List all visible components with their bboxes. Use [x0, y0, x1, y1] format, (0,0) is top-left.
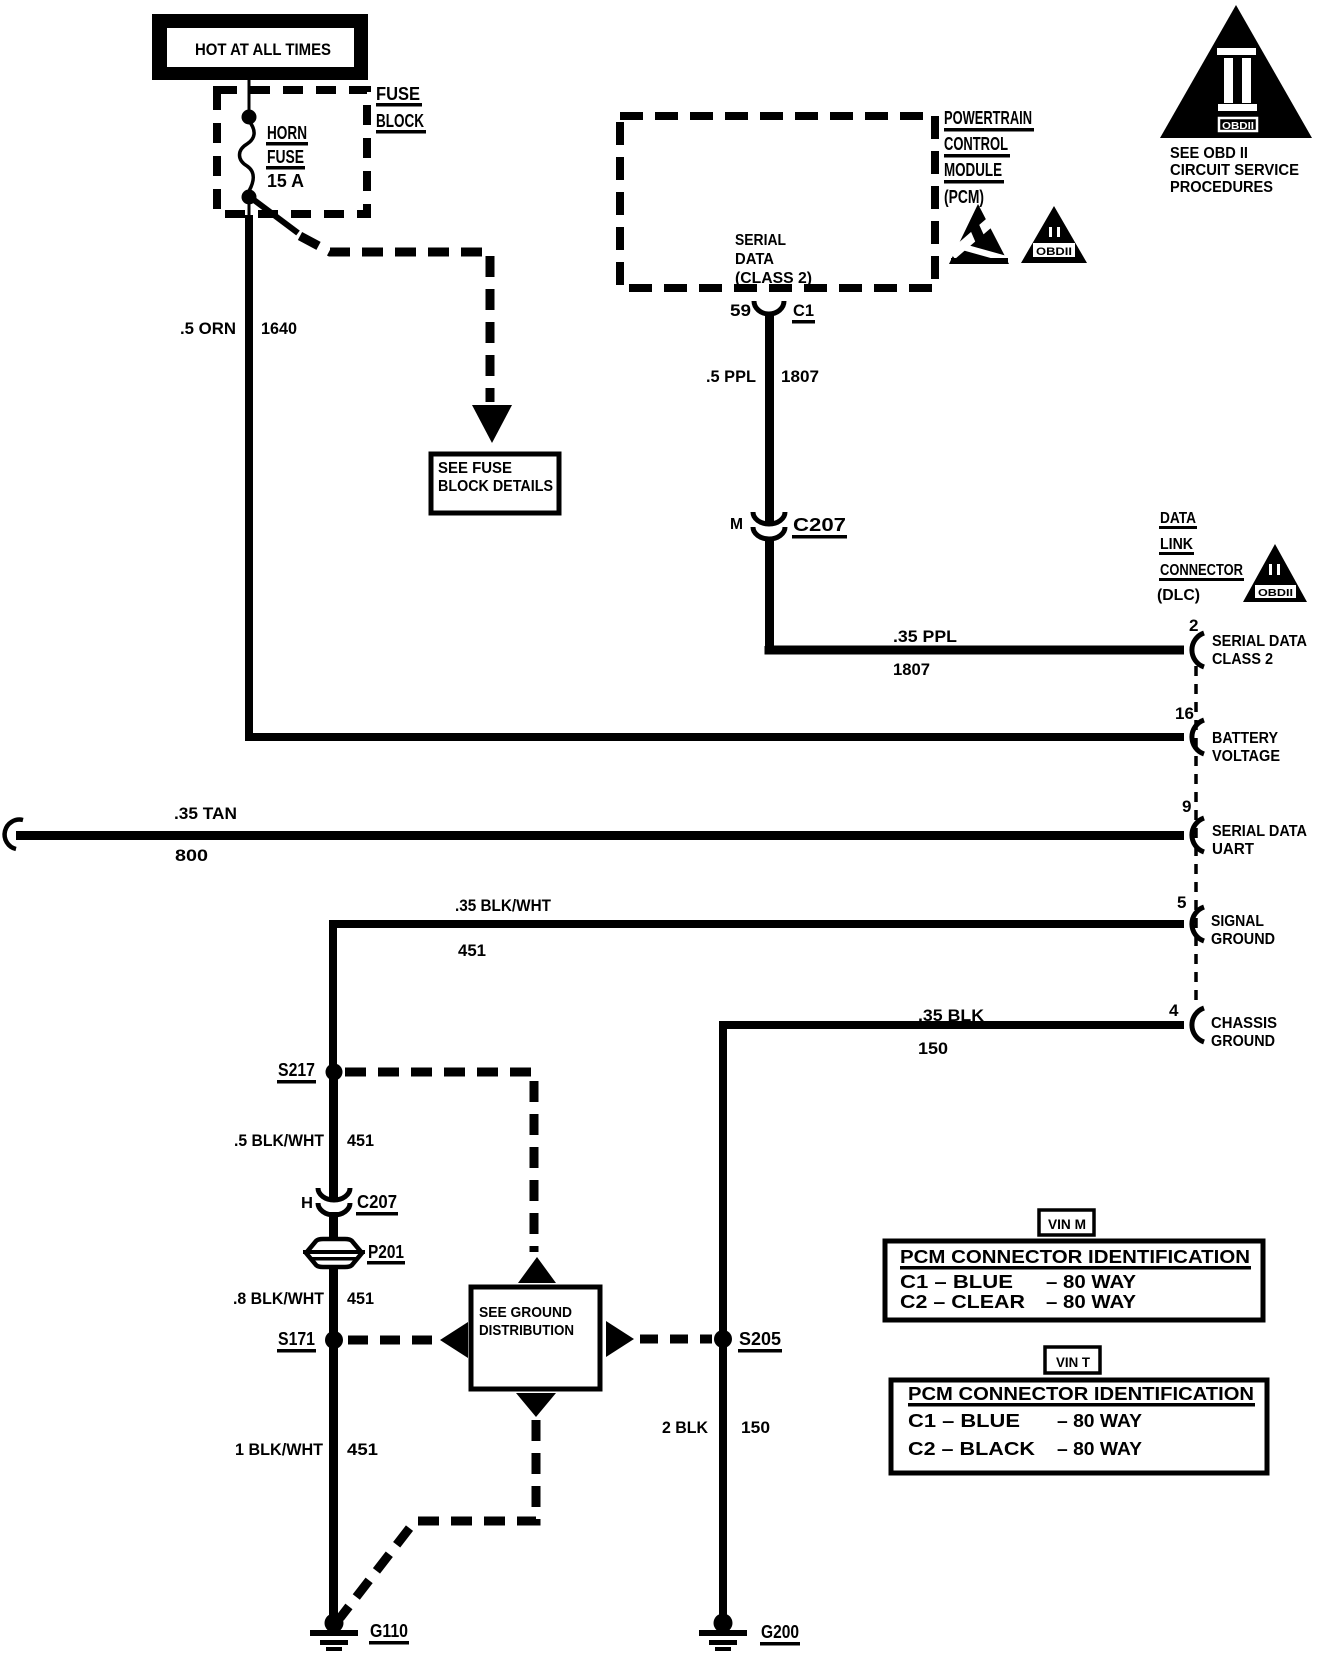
- svg-text:SERIAL DATA: SERIAL DATA: [1212, 633, 1307, 650]
- svg-text:MODULE: MODULE: [944, 160, 1002, 180]
- ESD warning triangle: [949, 204, 1009, 264]
- ground G110: [310, 1614, 409, 1652]
- label 1 BLK/WHT 451: [235, 1440, 378, 1459]
- connector DLC pin 4: [1169, 1001, 1277, 1050]
- svg-text:BLOCK DETAILS: BLOCK DETAILS: [438, 478, 553, 495]
- svg-text:OBDII: OBDII: [1258, 588, 1293, 599]
- wire dashed ground distribution to S205: [606, 1321, 712, 1357]
- svg-text:CONNECTOR: CONNECTOR: [1160, 562, 1243, 579]
- svg-text:5: 5: [1177, 893, 1186, 912]
- wire S171 to G110 vertical: [329, 1340, 338, 1622]
- node PCM connector identification (VIN M): [885, 1241, 1263, 1320]
- svg-text:FUSE: FUSE: [267, 147, 304, 167]
- svg-text:SEE OBD II: SEE OBD II: [1170, 145, 1248, 162]
- wire .5 ORN 1640 vertical: [245, 215, 253, 741]
- svg-text:.35 TAN: .35 TAN: [174, 804, 237, 823]
- svg-text:SEE GROUND: SEE GROUND: [479, 1304, 572, 1321]
- svg-text:CLASS 2: CLASS 2: [1212, 651, 1273, 668]
- connector DLC pin 16: [1175, 704, 1280, 765]
- svg-text:GROUND: GROUND: [1211, 1033, 1275, 1050]
- node FUSE BLOCK label: [376, 84, 426, 134]
- svg-text:M: M: [730, 516, 743, 533]
- svg-text:DATA: DATA: [735, 251, 774, 268]
- svg-text:HOT AT ALL TIMES: HOT AT ALL TIMES: [195, 40, 331, 59]
- PCM box (powertrain control module): [620, 116, 935, 288]
- svg-text:DATA: DATA: [1160, 510, 1196, 527]
- svg-text:.5 ORN: .5 ORN: [180, 319, 236, 338]
- svg-text:2: 2: [1189, 616, 1198, 635]
- svg-text:1640: 1640: [261, 319, 297, 338]
- splice S205: [714, 1329, 782, 1353]
- label .5 PPL 1807: [706, 367, 819, 386]
- label SERIAL DATA (CLASS 2): [735, 232, 812, 287]
- svg-text:59: 59: [730, 301, 751, 320]
- svg-text:POWERTRAIN: POWERTRAIN: [944, 108, 1032, 128]
- svg-text:SERIAL: SERIAL: [735, 232, 786, 249]
- connector C1 pin 59 at PCM: [730, 301, 815, 324]
- connector DLC pin 9: [1182, 797, 1307, 858]
- connector DLC pin 5: [1177, 893, 1275, 948]
- svg-text:C1 – BLUE: C1 – BLUE: [900, 1272, 1013, 1292]
- svg-text:– 80 WAY: – 80 WAY: [1046, 1292, 1136, 1312]
- wire dashed DLC internal bus: [1194, 666, 1198, 1004]
- svg-text:VIN M: VIN M: [1048, 1216, 1086, 1232]
- label .5 ORN 1640: [180, 319, 297, 338]
- svg-text:VOLTAGE: VOLTAGE: [1212, 748, 1280, 765]
- splice S217: [277, 1060, 343, 1084]
- svg-text:.5 PPL: .5 PPL: [706, 367, 756, 386]
- svg-text:VIN T: VIN T: [1056, 1354, 1090, 1370]
- wire .35 BLK 150 chassis ground: [723, 1006, 1184, 1622]
- node SEE GROUND DISTRIBUTION: [471, 1287, 600, 1389]
- node HOT AT ALL TIMES: [152, 14, 368, 80]
- wire battery voltage horizontal to DLC pin 16: [245, 733, 1184, 741]
- svg-text:C2 – CLEAR: C2 – CLEAR: [900, 1292, 1025, 1312]
- svg-text:150: 150: [918, 1039, 948, 1058]
- svg-text:C207: C207: [793, 515, 846, 535]
- svg-text:16: 16: [1175, 704, 1194, 723]
- svg-text:C207: C207: [357, 1192, 397, 1212]
- svg-text:15 A: 15 A: [267, 171, 304, 191]
- wire dashed S217 to ground distribution: [345, 1072, 556, 1283]
- svg-text:.8 BLK/WHT: .8 BLK/WHT: [233, 1289, 325, 1308]
- svg-text:BATTERY: BATTERY: [1212, 730, 1278, 747]
- label POWERTRAIN CONTROL MODULE (PCM): [944, 108, 1034, 207]
- svg-text:S171: S171: [278, 1329, 315, 1349]
- svg-text:CIRCUIT SERVICE: CIRCUIT SERVICE: [1170, 162, 1299, 179]
- label DATA LINK CONNECTOR (DLC): [1157, 510, 1244, 604]
- svg-text:– 80 WAY: – 80 WAY: [1057, 1439, 1142, 1459]
- svg-text:PROCEDURES: PROCEDURES: [1170, 179, 1273, 196]
- svg-text:451: 451: [458, 941, 486, 960]
- label SEE OBD II CIRCUIT SERVICE PROCEDURES: [1170, 145, 1299, 196]
- svg-text:H: H: [301, 1195, 313, 1212]
- fuse HORN FUSE 15A: [240, 110, 309, 218]
- ground G200: [699, 1614, 800, 1652]
- wire S217 to C207 vertical: [329, 1072, 338, 1200]
- svg-text:UART: UART: [1212, 841, 1254, 858]
- svg-text:2 BLK: 2 BLK: [662, 1418, 709, 1437]
- wire dashed fuse to see-fuse-block-details: [254, 200, 512, 443]
- svg-text:150: 150: [741, 1418, 770, 1437]
- svg-text:LINK: LINK: [1160, 536, 1193, 553]
- node VIN M tag: [1039, 1210, 1094, 1235]
- fuse block box: [217, 90, 367, 214]
- wire dashed S171 to ground distribution: [348, 1322, 468, 1358]
- svg-text:HORN: HORN: [267, 123, 307, 143]
- svg-text:.35 BLK: .35 BLK: [918, 1006, 985, 1025]
- label 2 BLK 150: [662, 1418, 770, 1437]
- connector DLC pin 2: [1189, 616, 1307, 668]
- svg-text:SIGNAL: SIGNAL: [1211, 913, 1264, 930]
- node VIN T tag: [1045, 1347, 1100, 1373]
- wire C207 to P201: [329, 1212, 338, 1242]
- svg-text:C2 – BLACK: C2 – BLACK: [908, 1439, 1035, 1459]
- svg-text:CONTROL: CONTROL: [944, 134, 1008, 154]
- svg-text:(DLC): (DLC): [1157, 587, 1200, 604]
- svg-text:– 80 WAY: – 80 WAY: [1057, 1411, 1142, 1431]
- svg-text:BLOCK: BLOCK: [376, 111, 424, 131]
- svg-text:(CLASS 2): (CLASS 2): [735, 270, 812, 287]
- node PCM connector identification (VIN T): [891, 1380, 1267, 1473]
- svg-text:451: 451: [347, 1131, 374, 1150]
- splice S171: [277, 1329, 343, 1353]
- svg-text:.35 PPL: .35 PPL: [893, 627, 957, 646]
- wire .35 TAN 800 serial data UART: [5, 804, 1184, 865]
- svg-text:451: 451: [347, 1289, 374, 1308]
- svg-text:SEE FUSE: SEE FUSE: [438, 460, 512, 477]
- OBD II large triangle: [1160, 5, 1312, 138]
- svg-text:PCM CONNECTOR IDENTIFICATION: PCM CONNECTOR IDENTIFICATION: [908, 1383, 1254, 1404]
- svg-text:S217: S217: [278, 1060, 315, 1080]
- svg-text:P201: P201: [368, 1242, 404, 1262]
- svg-text:1 BLK/WHT: 1 BLK/WHT: [235, 1440, 324, 1459]
- svg-text:G110: G110: [370, 1621, 408, 1641]
- wire .5 PPL 1807: [765, 314, 1184, 650]
- connector C207 pin H: [301, 1188, 398, 1216]
- wire P201 to S171: [329, 1266, 338, 1342]
- svg-text:G200: G200: [761, 1622, 799, 1642]
- svg-text:.5 BLK/WHT: .5 BLK/WHT: [234, 1131, 325, 1150]
- wire dashed ground distribution to G110: [340, 1393, 556, 1618]
- grommet P201: [303, 1239, 405, 1267]
- svg-text:OBDII: OBDII: [1036, 246, 1072, 258]
- svg-text:FUSE: FUSE: [376, 84, 420, 104]
- svg-text:DISTRIBUTION: DISTRIBUTION: [479, 1322, 574, 1339]
- wire .35 BLK/WHT 451 signal ground: [333, 896, 1184, 1072]
- svg-text:OBDII: OBDII: [1222, 121, 1254, 132]
- svg-text:9: 9: [1182, 797, 1191, 816]
- svg-text:GROUND: GROUND: [1211, 931, 1275, 948]
- svg-text:C1: C1: [793, 301, 814, 320]
- label .8 BLK/WHT 451: [233, 1289, 374, 1308]
- svg-text:– 80 WAY: – 80 WAY: [1046, 1272, 1136, 1292]
- svg-text:SERIAL DATA: SERIAL DATA: [1212, 823, 1307, 840]
- svg-text:1807: 1807: [781, 367, 819, 386]
- svg-text:CHASSIS: CHASSIS: [1211, 1015, 1277, 1032]
- svg-text:1807: 1807: [893, 660, 930, 679]
- OBD II small triangle (DLC): [1243, 544, 1307, 602]
- svg-text:.35 BLK/WHT: .35 BLK/WHT: [455, 896, 552, 915]
- svg-text:PCM CONNECTOR IDENTIFICATION: PCM CONNECTOR IDENTIFICATION: [900, 1246, 1250, 1267]
- wire HOT box to fuse: [248, 80, 251, 112]
- node SEE FUSE BLOCK DETAILS: [431, 454, 559, 513]
- OBD II small triangle (PCM): [1021, 206, 1087, 263]
- connector C207 pin M: [730, 512, 847, 539]
- svg-text:C1 – BLUE: C1 – BLUE: [908, 1411, 1020, 1431]
- svg-text:S205: S205: [739, 1329, 781, 1349]
- label .35 PPL 1807 horizontal: [893, 627, 957, 679]
- svg-text:4: 4: [1169, 1001, 1179, 1020]
- svg-text:800: 800: [175, 846, 208, 865]
- label .5 BLK/WHT 451: [234, 1131, 374, 1150]
- svg-text:451: 451: [347, 1440, 378, 1459]
